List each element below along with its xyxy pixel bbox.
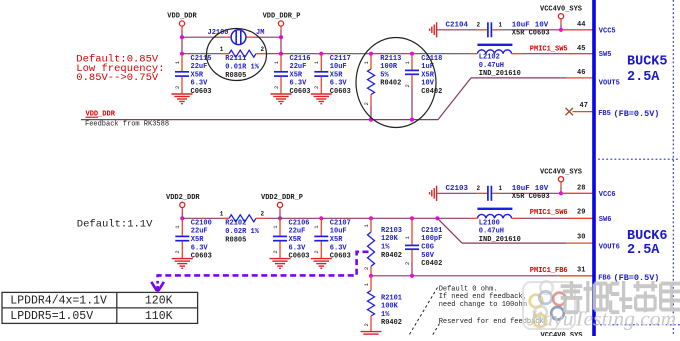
pin name FB6	[598, 273, 659, 283]
svg-text:10uF: 10uF	[330, 228, 347, 236]
ground of C2106	[270, 259, 291, 269]
svg-text:31: 31	[577, 266, 585, 274]
pin 28 VCC6 stub	[561, 184, 593, 193]
power symbol VCC4V0_SYS (BUCK5)	[540, 5, 582, 30]
power symbol VDD2_DDR_P	[261, 194, 303, 212]
svg-text:VOUT5: VOUT5	[599, 79, 620, 87]
node junction feedback/C2118	[410, 118, 414, 122]
svg-text:SW6: SW6	[599, 216, 612, 224]
svg-text:R0402: R0402	[381, 319, 402, 327]
svg-text:2: 2	[272, 250, 279, 253]
wire R2113 bottom	[370, 106, 372, 120]
pin name VCC5	[599, 27, 616, 35]
pin 31 FB6 stub	[560, 266, 593, 275]
jumper J2100 JM	[208, 29, 265, 45]
svg-text:6.3V: 6.3V	[330, 80, 348, 88]
svg-text:0.47uH: 0.47uH	[479, 62, 504, 70]
svg-text:C2116: C2116	[290, 55, 311, 63]
net label VDD_DDR feedback	[86, 110, 116, 118]
net label PMIC1_SW6	[530, 209, 568, 217]
svg-text:10uF: 10uF	[512, 21, 531, 29]
wire jumper rail left	[182, 36, 224, 38]
wire VOUT5 horizontal	[471, 77, 566, 79]
wire VOUT6 horizontal	[462, 242, 566, 244]
pin 29 SW6 stub	[567, 208, 593, 218]
node junction feedback/R2113	[369, 118, 373, 122]
node junction VDD2_DDR_P	[278, 216, 282, 220]
svg-text:6.3V: 6.3V	[330, 244, 348, 252]
svg-text:PMIC1_FB6: PMIC1_FB6	[530, 267, 568, 275]
ground of C2115	[172, 94, 193, 104]
pin 46 VOUT5 stub	[566, 69, 593, 78]
svg-text:2.5A: 2.5A	[627, 243, 660, 258]
ground of C2116	[271, 94, 292, 104]
svg-text:BUCK5: BUCK5	[627, 55, 668, 70]
label BUCK5 2.5A	[627, 55, 668, 85]
svg-text:45: 45	[577, 45, 585, 53]
node junction VCC5	[559, 28, 563, 32]
ground of C2100	[172, 259, 193, 269]
svg-text:120K: 120K	[381, 235, 399, 243]
wire VDD_DDR feedback long line	[81, 119, 438, 121]
wire feedback diagonal to VOUT5	[438, 78, 471, 120]
resistor R2101 100K	[363, 276, 402, 332]
svg-text:0.01R 1%: 0.01R 1%	[225, 63, 259, 71]
svg-text:6.3V: 6.3V	[289, 244, 307, 252]
svg-text:X5R: X5R	[191, 236, 204, 244]
svg-text:C2101: C2101	[421, 227, 442, 235]
inductor L2100 0.47uH	[471, 208, 521, 244]
net label PMIC1_FB6	[530, 267, 568, 275]
wire SW6	[521, 217, 568, 219]
capacitor C2106	[272, 218, 310, 260]
svg-text:X5R: X5R	[290, 71, 303, 79]
resistor R2102 0.02R shunt	[220, 211, 267, 245]
svg-text:X5R: X5R	[191, 71, 204, 79]
svg-text:C2115: C2115	[191, 55, 212, 63]
svg-text:C0603: C0603	[330, 88, 351, 96]
capacitor C2104 10uF	[437, 21, 561, 37]
watermark CJK text	[561, 281, 680, 312]
svg-text:VCC4V0_SYS: VCC4V0_SYS	[541, 332, 583, 336]
svg-text:2.5A: 2.5A	[627, 70, 660, 85]
page border dashed vertical	[672, 0, 674, 336]
svg-text:46: 46	[577, 69, 585, 77]
svg-text:1uF: 1uF	[421, 63, 434, 71]
svg-text:C0603: C0603	[191, 88, 212, 96]
svg-text:R2102: R2102	[225, 220, 246, 228]
annotation Reserved for end feedback	[439, 318, 544, 326]
svg-text:2: 2	[313, 86, 320, 89]
svg-text:10V: 10V	[421, 80, 434, 88]
capacitor C2118 1uF	[404, 52, 443, 96]
watermark JiayuTesting.com	[527, 307, 676, 331]
svg-text:C0603: C0603	[330, 253, 351, 261]
pin name VOUT5	[599, 79, 620, 87]
svg-text:R2111: R2111	[225, 55, 246, 63]
svg-text:2: 2	[477, 185, 481, 192]
svg-text:X5R: X5R	[330, 71, 343, 79]
capacitor C2107	[313, 218, 351, 260]
dashed pointer line B	[432, 324, 440, 337]
svg-text:C2104: C2104	[446, 21, 469, 29]
svg-text:PMIC1_SW6: PMIC1_SW6	[530, 209, 568, 217]
svg-text:need change to 100ohm: need change to 100ohm	[439, 301, 527, 309]
svg-text:R0402: R0402	[380, 80, 401, 88]
svg-text:FB5: FB5	[598, 110, 611, 118]
svg-text:1%: 1%	[381, 311, 390, 319]
dashed pointer line A	[409, 288, 438, 337]
svg-text:R0805: R0805	[225, 72, 246, 80]
svg-text:JiayuTesting.com: JiayuTesting.com	[527, 307, 676, 331]
svg-text:LPDDR5=1.05V: LPDDR5=1.05V	[10, 310, 93, 323]
svg-text:VCC5: VCC5	[599, 27, 616, 35]
svg-text:X5R C0603: X5R C0603	[512, 193, 550, 201]
svg-text:30: 30	[577, 233, 585, 241]
wire C2118 bottom	[411, 86, 413, 120]
annotation Default:0.85V red	[76, 53, 164, 84]
wire SW5	[521, 53, 567, 55]
svg-text:110K: 110K	[145, 310, 173, 323]
no-connect X pin 47	[566, 108, 574, 115]
svg-text:R2113: R2113	[380, 55, 401, 63]
page border dashed horizontal (BUCK5/BUCK6 split)	[594, 158, 680, 160]
node junction VDD_DDR_P / jumper rail	[279, 35, 283, 39]
svg-text:VCC4V0_SYS: VCC4V0_SYS	[540, 5, 582, 13]
page border dashed horizontal (bottom split)	[596, 324, 680, 326]
svg-text:R2103: R2103	[381, 227, 402, 235]
node junction VDD2_DDR	[180, 216, 184, 220]
svg-text:LPDDR4/4x=1.1V: LPDDR4/4x=1.1V	[10, 294, 107, 307]
resistor R2111 0.01R shunt	[220, 46, 267, 80]
wire FB6 line	[371, 275, 560, 277]
pin name FB5	[598, 109, 659, 119]
svg-text:0.02R 1%: 0.02R 1%	[225, 228, 259, 236]
capacitor C2115	[174, 54, 212, 96]
svg-text:1: 1	[220, 211, 224, 218]
node junction VDD_DDR / jumper rail	[180, 35, 184, 39]
ground of C2107	[311, 259, 332, 269]
capacitor C2117	[313, 54, 351, 96]
svg-text:R2101: R2101	[381, 294, 402, 302]
svg-text:PMIC1_SW5: PMIC1_SW5	[530, 45, 568, 53]
svg-text:0.47uH: 0.47uH	[479, 228, 504, 236]
power symbol VCC4V0_SYS (BUCK6)	[540, 168, 582, 193]
table LPDDR values	[2, 292, 198, 323]
ground of C2117	[311, 94, 332, 104]
svg-text:100R: 100R	[380, 63, 398, 71]
svg-text:2: 2	[174, 250, 181, 253]
node junction VDD_DDR_P / cap rail	[279, 52, 283, 56]
svg-text:2: 2	[174, 86, 181, 89]
svg-text:X5R: X5R	[330, 236, 343, 244]
svg-text:C2100: C2100	[191, 219, 212, 227]
svg-text:2: 2	[313, 250, 320, 253]
svg-text:IND_201610: IND_201610	[479, 70, 521, 78]
svg-text:VDD2_DDR_P: VDD2_DDR_P	[261, 194, 303, 202]
svg-text:6.3V: 6.3V	[191, 244, 209, 252]
svg-text:2: 2	[477, 21, 481, 28]
svg-text:2: 2	[404, 262, 411, 265]
svg-text:C2117: C2117	[330, 55, 351, 63]
wire main rail BUCK6 middle	[267, 217, 471, 219]
svg-text:100K: 100K	[381, 303, 399, 311]
power symbol VDD_DDR	[167, 13, 197, 32]
svg-text:C2103: C2103	[446, 185, 469, 193]
svg-text:1: 1	[499, 185, 503, 192]
annotation Feedback from RK3588	[85, 121, 169, 129]
pin name VOUT6	[599, 243, 620, 251]
svg-text:0.85V-->0.75V: 0.85V-->0.75V	[76, 72, 159, 84]
pin name VCC6	[599, 191, 616, 199]
wire VDD2_DDR_P vertical	[279, 212, 281, 218]
svg-text:2: 2	[363, 323, 370, 326]
svg-text:VDD2_DDR: VDD2_DDR	[166, 194, 200, 202]
svg-text:6.3V: 6.3V	[191, 80, 209, 88]
svg-text:22uF: 22uF	[191, 63, 208, 71]
svg-text:C0603: C0603	[290, 88, 311, 96]
wire jumper rail right	[253, 36, 281, 38]
node junction VCC6	[559, 191, 563, 195]
watermark logo and text	[523, 281, 575, 329]
svg-text:SW5: SW5	[599, 51, 612, 59]
svg-text:2: 2	[261, 46, 265, 53]
svg-text:10uF: 10uF	[512, 185, 531, 193]
svg-text:28: 28	[577, 184, 585, 192]
resistor R2103 120K	[363, 216, 402, 276]
pin name SW6	[599, 216, 612, 224]
svg-text:5%: 5%	[380, 71, 389, 79]
op-amp U? PMIC IC body edge	[592, 0, 596, 336]
svg-text:L2100: L2100	[479, 219, 500, 227]
svg-text:VCC4V0_SYS: VCC4V0_SYS	[540, 168, 582, 176]
pin name SW5	[599, 51, 612, 59]
node junction VOUT6 diagonal	[435, 216, 439, 220]
svg-text:47: 47	[580, 102, 588, 110]
resistor R2113 100R	[363, 52, 402, 106]
pin 44 VCC5 stub	[561, 21, 593, 30]
power symbol VDD2_DDR	[166, 194, 200, 212]
svg-text:R0402: R0402	[381, 252, 402, 260]
svg-text:22uF: 22uF	[289, 228, 306, 236]
annotation Default 0 ohm block	[439, 286, 527, 309]
node junction FB6/C2101	[410, 274, 414, 278]
svg-text:VCC6: VCC6	[599, 191, 616, 199]
annotation Default:1.1V	[77, 219, 153, 231]
svg-text:2: 2	[273, 86, 280, 89]
highlight ellipse around J2100/R2111	[207, 29, 267, 81]
wire main rail BUCK6 left	[182, 217, 221, 219]
capacitor C2116	[273, 54, 311, 96]
svg-text:C2106: C2106	[289, 219, 310, 227]
svg-text:100pF: 100pF	[421, 235, 442, 243]
svg-text:10uF: 10uF	[330, 63, 347, 71]
inductor L2102 0.47uH	[471, 44, 522, 79]
capacitor C2100	[174, 218, 212, 260]
power symbol VDD_DDR_P	[263, 13, 301, 32]
wire VDD_DDR_P vertical	[280, 31, 282, 54]
svg-text:X5R C0603: X5R C0603	[512, 29, 550, 37]
pin 47 FB5 stub	[573, 102, 593, 111]
svg-text:22uF: 22uF	[290, 63, 307, 71]
svg-text:2: 2	[404, 84, 411, 87]
svg-text:1: 1	[220, 46, 224, 53]
svg-text:VOUT6: VOUT6	[599, 243, 620, 251]
power symbol VCC4V0_SYS (bottom, clipped)	[541, 332, 583, 340]
svg-text:C0402: C0402	[421, 260, 442, 268]
svg-text:Default:1.1V: Default:1.1V	[77, 219, 153, 231]
svg-text:X5R: X5R	[289, 236, 302, 244]
capacitor C2101 100pF	[404, 216, 443, 276]
svg-text:2: 2	[363, 267, 370, 270]
purple dashed pointer R2103 to table	[151, 252, 368, 292]
wire VDD2_DDR vertical	[181, 212, 183, 218]
svg-text:C0603: C0603	[191, 253, 212, 261]
svg-text:VDD_DDR_P: VDD_DDR_P	[263, 13, 301, 21]
svg-text:22uF: 22uF	[191, 228, 208, 236]
svg-text:L2102: L2102	[479, 54, 500, 62]
wire VDD_DDR vertical	[181, 31, 183, 54]
net label PMIC1_SW5	[530, 45, 568, 53]
svg-text:(FB=0.5V): (FB=0.5V)	[614, 109, 660, 119]
node junction C2117	[319, 52, 323, 56]
wire main rail BUCK5 middle	[267, 53, 471, 55]
ground of R2101	[361, 332, 382, 335]
wire diagonal to VOUT6	[437, 218, 462, 243]
ground of C2103 (rotated)	[430, 186, 437, 201]
svg-text:C0402: C0402	[421, 88, 442, 96]
highlight ellipse around R2113/C2118	[356, 38, 436, 128]
pin 45 SW5 stub	[567, 45, 593, 54]
node junction FB6/R2103	[369, 274, 373, 278]
svg-text:44: 44	[577, 21, 585, 29]
node junction C2107	[319, 216, 323, 220]
svg-text:C0G: C0G	[421, 244, 434, 252]
svg-text:6.3V: 6.3V	[290, 80, 308, 88]
svg-text:50V: 50V	[421, 252, 434, 260]
ground of C2104 (rotated)	[430, 22, 437, 37]
svg-text:X5R: X5R	[421, 71, 434, 79]
pin 30 VOUT6 stub	[566, 233, 593, 243]
svg-text:1: 1	[499, 21, 503, 28]
svg-text:IND_201610: IND_201610	[479, 236, 521, 244]
svg-text:29: 29	[577, 208, 585, 216]
svg-text:2: 2	[261, 211, 265, 218]
label BUCK6 2.5A	[627, 229, 668, 258]
node junction VDD_DDR / C2115 rail	[180, 52, 184, 56]
svg-text:10V: 10V	[535, 21, 549, 29]
svg-text:1%: 1%	[381, 244, 390, 252]
svg-text:Feedback from RK3588: Feedback from RK3588	[85, 121, 169, 129]
capacitor C2103 10uF	[437, 185, 561, 201]
svg-text:2: 2	[363, 102, 370, 105]
svg-text:C0603: C0603	[289, 253, 310, 261]
wire main rail BUCK5 left	[182, 53, 222, 55]
svg-text:FB6: FB6	[598, 274, 611, 282]
svg-text:C2107: C2107	[330, 219, 351, 227]
svg-text:10V: 10V	[535, 185, 549, 193]
svg-text:120K: 120K	[145, 294, 173, 307]
svg-text:R0805: R0805	[225, 236, 246, 244]
svg-text:VDD_DDR: VDD_DDR	[167, 13, 197, 21]
